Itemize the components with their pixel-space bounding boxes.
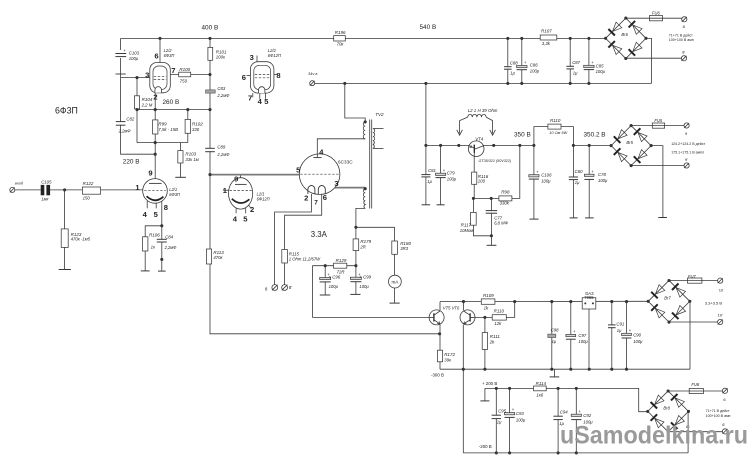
wire C79 branch — [440, 145, 442, 204]
svg-text:1к6: 1к6 — [536, 393, 543, 398]
wire VT4 base R116 — [473, 156, 475, 198]
ground mA meter — [390, 302, 400, 304]
svg-text:R196: R196 — [335, 30, 346, 35]
terminal winding 8 bottom — [681, 56, 686, 61]
svg-text:GT35/321 (50V322): GT35/321 (50V322) — [479, 159, 512, 163]
svg-text:8': 8' — [289, 285, 292, 290]
svg-text:9: 9 — [148, 169, 152, 178]
wire pin4 6S33S to TV2 — [317, 139, 365, 154]
svg-text:7,5k - 15В: 7,5k - 15В — [158, 127, 178, 132]
svg-text:33к 1м: 33к 1м — [185, 157, 198, 162]
svg-text:12k: 12k — [494, 321, 502, 326]
resistor R122 — [82, 187, 100, 194]
svg-text:100μ: 100μ — [329, 284, 339, 289]
svg-text:400 В: 400 В — [202, 25, 219, 32]
svg-text:C83: C83 — [217, 86, 225, 91]
svg-text:70к: 70к — [337, 41, 345, 46]
svg-text:8: 8 — [276, 71, 280, 80]
wire -300V rail — [440, 368, 690, 370]
svg-text:L2 1 H 39 Ohm: L2 1 H 39 Ohm — [468, 108, 498, 113]
capacitor C80 — [571, 177, 575, 179]
wire R102 branch — [187, 110, 189, 143]
svg-text:3: 3 — [250, 53, 254, 62]
capacitor C78 — [587, 176, 591, 179]
ground C79 — [437, 204, 445, 206]
svg-text:C105: C105 — [41, 179, 52, 184]
svg-text:+ C99: + C99 — [359, 275, 371, 280]
wire C103/C82 branch — [121, 38, 156, 154]
svg-text:1μ: 1μ — [617, 328, 622, 333]
wire Br6 top to FU6 terminal — [626, 17, 682, 19]
wire pin4 stub — [146, 201, 148, 208]
wire C106 branch — [533, 145, 535, 218]
resistor R107 — [540, 35, 557, 40]
capacitor C89 — [208, 149, 212, 152]
resistor R196 — [334, 36, 346, 41]
diode bridge Br6 — [606, 18, 646, 58]
svg-text:C90: C90 — [633, 333, 641, 338]
svg-text:R100: R100 — [179, 67, 190, 72]
wire R179/C99 branch — [355, 227, 357, 294]
svg-text:C87: C87 — [572, 60, 580, 65]
ground R106 — [141, 270, 150, 272]
svg-text:uSamodelkina.ru: uSamodelkina.ru — [560, 422, 748, 450]
svg-text:7: 7 — [248, 94, 252, 103]
resistor R110 12k — [492, 315, 506, 320]
svg-text:-300 В: -300 В — [431, 373, 444, 378]
wire 350V rail left — [426, 144, 534, 146]
svg-text:1μ: 1μ — [552, 339, 557, 344]
capacitor C93 — [508, 415, 512, 418]
wire Br7 top to FU7 terminal — [669, 280, 717, 282]
svg-text:Br5: Br5 — [626, 140, 633, 145]
ground C84 — [158, 270, 166, 272]
capacitor C84 — [160, 240, 164, 242]
wire DA3 output pin — [588, 309, 590, 369]
wire C91 branch — [611, 302, 613, 370]
ammeter mA — [389, 275, 402, 288]
wire R117 branch — [473, 198, 491, 235]
svg-text:1μ: 1μ — [427, 179, 432, 184]
wire C87 branch — [569, 38, 571, 83]
svg-text:100μ: 100μ — [633, 339, 643, 344]
svg-text:350.2 В: 350.2 В — [584, 132, 606, 139]
svg-text:10Мом: 10Мом — [460, 228, 473, 233]
wire C105 to pin1 — [50, 189, 143, 191]
svg-text:C80: C80 — [575, 169, 583, 174]
ground C96 — [320, 294, 330, 296]
transformer TV2 core — [369, 120, 371, 209]
wire Br6 right to common rail — [646, 38, 651, 83]
wire pin1 stub lower 6F12P — [223, 189, 229, 191]
svg-text:FU7: FU7 — [688, 274, 696, 279]
transistor VT4 — [468, 141, 484, 157]
svg-text:750: 750 — [180, 79, 188, 84]
inductor L2 — [468, 114, 486, 117]
wire Br7 bottom to terminal 10' — [669, 321, 717, 323]
svg-text:71+71 В дейст: 71+71 В дейст — [669, 34, 693, 38]
svg-text:C91: C91 — [616, 321, 624, 326]
wire 260V node — [137, 109, 210, 111]
capacitor C105 — [41, 185, 45, 195]
tube 6S33S envelope — [299, 154, 340, 195]
terminal winding 10 bottom — [718, 319, 723, 324]
wire Br6 bottom to terminal — [626, 57, 682, 59]
ground C99 — [350, 293, 360, 295]
svg-text:150: 150 — [83, 195, 91, 200]
resistor R99 — [153, 120, 158, 134]
terminal winding 10 top — [718, 278, 723, 283]
svg-text:R107: R107 — [541, 29, 552, 34]
terminal winding 6 top — [722, 388, 727, 393]
wire C85 branch — [588, 38, 590, 83]
wire Br8 bottom to terminal 6' — [668, 431, 722, 433]
wire heater pin2 to terminal 8 — [275, 194, 312, 285]
wire C77 branch — [490, 198, 492, 245]
svg-text:R110: R110 — [494, 308, 505, 313]
svg-text:-200 В: -200 В — [479, 444, 492, 449]
capacitor C97 — [569, 336, 573, 339]
wire Br5 right to ground — [651, 146, 663, 218]
ground C77 — [487, 244, 497, 246]
svg-text:3: 3 — [334, 179, 338, 188]
capacitor C82 — [119, 122, 123, 125]
resistor R172 — [437, 350, 442, 362]
wire C90 branch — [626, 302, 628, 370]
svg-text:6Ф3П: 6Ф3П — [169, 192, 180, 197]
resistor R115 — [282, 250, 288, 264]
wire C92 branch — [575, 388, 577, 453]
svg-text:1μ: 1μ — [510, 71, 515, 76]
svg-text:+ 200 В: + 200 В — [482, 381, 497, 386]
wire 400V/540V top rail — [121, 37, 606, 39]
wire pin8 stub upper 6F12P — [274, 74, 278, 76]
svg-text:1μ: 1μ — [573, 70, 578, 75]
wire grid line 6S33S — [210, 174, 299, 176]
wire pin4 stub upper 6F12P — [259, 93, 261, 99]
svg-text:100к: 100к — [216, 55, 226, 60]
wire VT6 emitter long — [462, 325, 464, 453]
svg-text:2,2мФ: 2,2мФ — [216, 152, 230, 157]
resistor R114 — [534, 386, 547, 391]
resistor R129 — [334, 263, 347, 268]
terminal winding 9 top — [684, 123, 689, 128]
wire C78 branch — [588, 145, 590, 217]
capacitor C87 — [568, 67, 572, 69]
wire collector rail VT5/VT6 — [440, 300, 648, 302]
svg-text:2,2мФ: 2,2мФ — [216, 93, 230, 98]
wire R129 loop to VT5 base — [313, 266, 430, 318]
svg-text:10': 10' — [718, 312, 723, 317]
svg-text:7: 7 — [314, 199, 318, 206]
svg-text:TV2: TV2 — [375, 112, 384, 117]
svg-text:100μ: 100μ — [578, 339, 588, 344]
wire R180/mA branch — [394, 227, 396, 303]
wire C95 branch — [495, 388, 497, 453]
svg-text:R129: R129 — [336, 258, 347, 263]
tube L2/1 6F3P envelope — [143, 179, 168, 204]
ground +200 rail — [480, 400, 489, 402]
wire C96 branch — [324, 266, 326, 295]
svg-text:260 В: 260 В — [163, 99, 180, 106]
svg-text:3.3+3.5 В: 3.3+3.5 В — [705, 300, 723, 305]
resistor R109 — [481, 299, 495, 304]
capacitor C96 — [323, 279, 327, 282]
resistor R106 — [143, 237, 148, 251]
svg-text:1μ: 1μ — [575, 180, 580, 185]
svg-text:100μ: 100μ — [541, 178, 551, 183]
svg-text:2: 2 — [153, 93, 157, 102]
wire VT5 collector — [439, 302, 441, 311]
svg-text:10: 10 — [719, 287, 724, 292]
resistor R103 — [178, 151, 183, 163]
capacitor C98 — [548, 334, 556, 337]
svg-text:1 Ohm 11,2/67W: 1 Ohm 11,2/67W — [289, 257, 321, 262]
terminal winding 8 top — [682, 17, 687, 22]
wire audio input / common rail — [315, 82, 652, 84]
svg-text:C85: C85 — [596, 64, 604, 69]
wire R110 series loop — [534, 127, 574, 146]
wire pin6 L2/2 to rail — [159, 38, 161, 62]
wire pin2 stub lower 6F12P — [249, 205, 252, 208]
ground C78 — [585, 217, 594, 219]
wire Br5 bottom to terminal 9' — [631, 165, 684, 167]
resistor R98 — [499, 196, 512, 201]
svg-text:6,8 МФ: 6,8 МФ — [494, 221, 508, 226]
svg-text:220 В: 220 В — [123, 159, 140, 166]
ground C106 — [530, 218, 539, 220]
svg-text:6: 6 — [242, 73, 246, 82]
resistor R113 — [206, 249, 211, 264]
svg-text:6Ф3П: 6Ф3П — [55, 106, 78, 116]
capacitor C92 — [574, 416, 578, 419]
svg-text:470к -1м5: 470к -1м5 — [71, 236, 91, 241]
capacitor C88 — [506, 67, 510, 69]
resistor R117 — [471, 212, 477, 225]
svg-text:2k: 2k — [489, 339, 495, 344]
wire cathode node line — [137, 142, 188, 144]
resistor R100 — [179, 72, 191, 77]
wire pin4 stub lower 6F12P — [235, 209, 237, 214]
diode bridge Br7 — [648, 281, 690, 323]
svg-text:100+100 В амп: 100+100 В амп — [706, 414, 731, 418]
svg-text:8: 8 — [164, 203, 168, 212]
wire C94 branch — [557, 388, 559, 453]
svg-text:R122: R122 — [83, 181, 94, 186]
capacitor C85 — [587, 67, 591, 69]
svg-text:C95: C95 — [498, 409, 506, 414]
wire Br7 right to -300 rail — [689, 301, 691, 369]
svg-text:R110: R110 — [550, 118, 561, 123]
svg-text:Br6: Br6 — [621, 32, 628, 37]
capacitor C81 — [424, 175, 428, 177]
svg-text:FU5: FU5 — [654, 118, 662, 123]
resistor R101 — [208, 47, 213, 60]
wire input to C105 — [15, 189, 41, 191]
svg-text:100μ: 100μ — [516, 417, 526, 422]
svg-text:R98: R98 — [501, 190, 510, 195]
svg-text:R114: R114 — [536, 381, 547, 386]
svg-text:6С33С: 6С33С — [338, 160, 353, 165]
capacitor C99 — [354, 279, 358, 282]
wire TV2 lower primary bottom — [356, 208, 365, 227]
resistor R111 — [482, 333, 487, 350]
svg-text:R172: R172 — [444, 352, 455, 357]
wire cathode current node — [356, 226, 395, 228]
svg-text:вход: вход — [15, 181, 24, 186]
wire TV2 primary top feed — [345, 83, 365, 122]
svg-text:7955: 7955 — [584, 295, 594, 300]
wire ground stub -300 rail — [553, 369, 555, 376]
svg-text:7: 7 — [171, 66, 175, 75]
wire VT5 emitter/R172 — [439, 325, 441, 370]
svg-text:6Ф12П: 6Ф12П — [257, 196, 270, 201]
svg-text:R109: R109 — [483, 293, 494, 298]
wire pin7 to R100 to 210 rail — [170, 74, 210, 76]
svg-text:Br7: Br7 — [664, 296, 671, 301]
capacitor C90 — [625, 335, 629, 338]
wire cathode L2/1 — [161, 201, 163, 271]
svg-text:VT4: VT4 — [475, 137, 483, 142]
capacitor C94 — [556, 417, 560, 420]
terminal 8' filament — [282, 285, 288, 291]
svg-text:+ C96: + C96 — [329, 275, 341, 280]
svg-text:VT5 VT6: VT5 VT6 — [443, 305, 460, 310]
svg-text:C92: C92 — [583, 413, 591, 418]
wire R103 branch — [179, 143, 181, 177]
fuse FU5 — [652, 123, 664, 128]
resistor R123 — [61, 229, 68, 248]
svg-text:2,2 М: 2,2 М — [141, 102, 153, 107]
resistor R102 — [185, 119, 190, 133]
wire pin6 stub upper 6F12P — [247, 75, 251, 77]
svg-text:39к: 39к — [444, 358, 452, 363]
terminal 34ch input — [310, 81, 315, 86]
voltage regulator DA3 7955 — [582, 298, 596, 309]
capacitor C79 — [439, 175, 443, 177]
svg-text:C88: C88 — [510, 60, 518, 65]
ground R123 — [59, 269, 71, 271]
svg-text:540 В: 540 В — [420, 24, 437, 31]
wire pin5 stub lower 6F12P — [245, 208, 247, 213]
junction dots — [158, 37, 161, 40]
wire node grid L2/2 — [121, 77, 151, 79]
capacitor C77 — [489, 211, 493, 213]
wire C80 branch — [572, 145, 574, 217]
wire pin7 stub upper 6F12P — [252, 93, 254, 97]
svg-text:2R: 2R — [359, 244, 366, 249]
svg-text:1мк: 1мк — [41, 197, 49, 202]
svg-text:C106: C106 — [541, 173, 552, 178]
terminal 8 filament — [272, 285, 278, 291]
svg-text:C79: C79 — [447, 171, 455, 176]
svg-text:FU8: FU8 — [691, 382, 699, 387]
fuse FU6 — [649, 16, 662, 21]
terminal winding 6 bottom — [722, 429, 727, 434]
wire +200 ground stub — [484, 388, 486, 400]
capacitor C83 — [206, 90, 216, 93]
wire TV2 secondary tap bottom — [373, 147, 384, 149]
svg-text:2: 2 — [250, 205, 254, 214]
transistor VT6 — [460, 310, 475, 325]
svg-text:9: 9 — [234, 174, 238, 183]
tube L2/1 6F12P envelope — [229, 178, 253, 209]
svg-text:C97: C97 — [578, 333, 586, 338]
svg-text:1μ: 1μ — [497, 420, 502, 425]
svg-text:10 Ом 5W: 10 Ом 5W — [549, 130, 567, 135]
wire R99/220V/pin9 line — [154, 110, 156, 179]
wire VT6 collector — [463, 302, 465, 311]
wire R104 branch — [136, 78, 138, 143]
wire R111 branch — [484, 317, 486, 369]
svg-text:3R3: 3R3 — [400, 246, 408, 251]
svg-text:3,3k: 3,3k — [542, 41, 551, 46]
svg-text:330: 330 — [192, 127, 200, 132]
ground C81 — [422, 204, 431, 206]
terminal winding 9 bottom — [684, 163, 689, 168]
wire anode line 6S33S — [335, 187, 365, 189]
wire TV2 secondary tap top — [373, 128, 384, 130]
resistor R180 — [392, 241, 398, 254]
wire C93 branch — [509, 388, 511, 453]
wire pin2 down — [154, 93, 156, 110]
svg-text:100+100 В амп: 100+100 В амп — [669, 38, 694, 42]
wire Br5 top to FU5 terminal — [631, 125, 684, 127]
wire pin3 stub upper 6F12P — [256, 56, 258, 62]
svg-text:350 В: 350 В — [514, 132, 531, 139]
svg-text:3.3А: 3.3А — [311, 230, 328, 239]
ground Br5 minus — [658, 217, 667, 219]
svg-text:100μ: 100μ — [129, 56, 139, 61]
wire pin9 stub lower 6F12P — [240, 174, 242, 178]
svg-text:175.1+175.1 В ампл: 175.1+175.1 В ампл — [671, 150, 704, 154]
wire C88 branch — [507, 38, 509, 83]
svg-text:34ч в: 34ч в — [308, 71, 317, 76]
transformer TV2 primary upper winding — [363, 122, 365, 139]
capacitor C103 polarity bar — [116, 73, 126, 75]
svg-text:100μ: 100μ — [596, 69, 606, 74]
svg-text:6Ф3П: 6Ф3П — [164, 53, 175, 58]
wire R98 loop — [474, 145, 520, 198]
wire R123 branch — [64, 190, 66, 269]
svg-text:100μ: 100μ — [359, 284, 369, 289]
svg-text:C94: C94 — [560, 410, 568, 415]
tube L2/2 6F3P envelope — [150, 63, 171, 93]
resistor R110 10 Ohm — [548, 124, 561, 129]
wire heater pin6 to R115 terminal 8' — [285, 194, 322, 285]
wire Br8 top to FU8 terminal — [668, 390, 722, 392]
wire common to 350 rail / C81 — [425, 83, 427, 204]
svg-text:100: 100 — [478, 178, 486, 183]
diode bridge Br5 — [611, 126, 651, 166]
svg-text:8': 8' — [682, 49, 685, 54]
resistor R116 — [472, 172, 477, 184]
transformer TV2 primary lower winding — [363, 189, 365, 209]
wire -200V rail — [463, 452, 688, 454]
fuse FU7 — [688, 278, 702, 283]
capacitor C103 — [119, 50, 123, 58]
svg-text:100μ: 100μ — [447, 176, 457, 181]
svg-text:6: 6 — [323, 193, 327, 202]
ground R103 — [175, 176, 186, 178]
wire Br8 right to -200 rail — [687, 411, 689, 453]
svg-text:C93: C93 — [516, 411, 524, 416]
transistor VT5 — [429, 310, 444, 325]
svg-text:R106: R106 — [149, 233, 160, 238]
svg-text:C81: C81 — [428, 168, 436, 173]
svg-text:C98: C98 — [551, 328, 559, 333]
wire pin5 stub — [155, 203, 157, 208]
